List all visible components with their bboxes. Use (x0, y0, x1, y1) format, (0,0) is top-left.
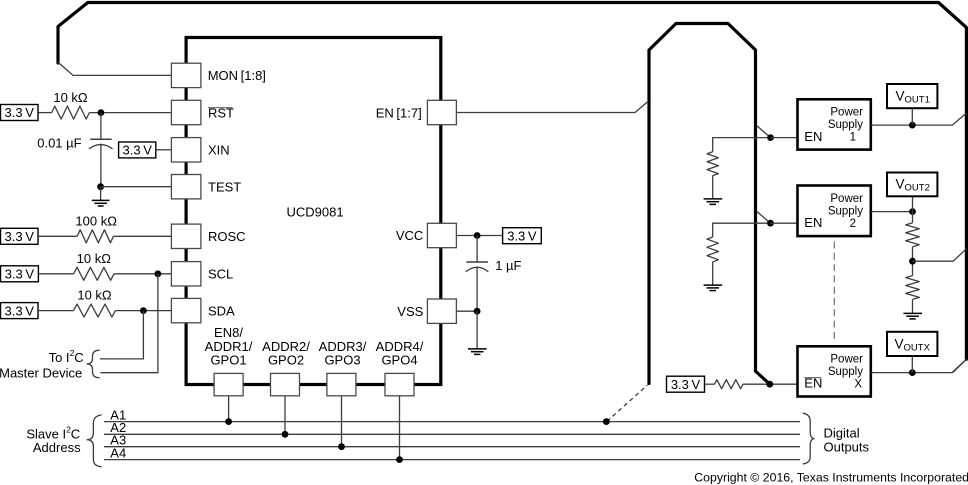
power 3.3V box (SCL) (1, 266, 39, 282)
power 3.3V box (ROSC) (1, 228, 39, 244)
pin EN[1:7] (376, 100, 457, 124)
svg-text:10 kΩ: 10 kΩ (77, 251, 112, 266)
pin ROSC (171, 224, 245, 248)
wire divider mid stem (912, 247, 914, 276)
node digital outputs brace (803, 413, 815, 464)
op-amp PS1 Power Supply 1 (798, 99, 871, 149)
wire EN2 tap from EN bus (757, 211, 771, 223)
node slave address brace (87, 415, 102, 467)
node ENX junction (766, 381, 773, 388)
wire SCL to I2C master (100, 274, 157, 373)
ground (pulldown 1) (704, 176, 723, 205)
wire A1 line (104, 421, 800, 423)
svg-text:To I2C: To I2C (49, 348, 84, 365)
wire XIN (156, 149, 172, 151)
svg-text:GPO3: GPO3 (324, 353, 360, 368)
svg-text:Slave I2C: Slave I2C (26, 424, 80, 441)
svg-text:MON [1:8]: MON [1:8] (208, 68, 266, 83)
node A1 dashed junction (603, 418, 610, 425)
ground (pulldown 2) (704, 262, 723, 291)
node VOUTX junction (909, 369, 916, 376)
svg-text:10 kΩ: 10 kΩ (77, 288, 112, 303)
wire MON bus thin tail to MON pin (58, 62, 171, 75)
svg-text:X: X (854, 379, 862, 391)
wire VSS (456, 310, 477, 312)
ground (divider) (903, 299, 922, 319)
wire ROSC right (113, 235, 171, 237)
power 3.3V box (VCC) (503, 228, 542, 244)
resistor R4 10k (SDA) (74, 304, 116, 317)
resistor R7 (ENX pull-up) (715, 380, 743, 389)
wire VOUTX stub (911, 356, 913, 373)
svg-text:10 kΩ: 10 kΩ (53, 90, 88, 105)
svg-text:Copyright © 2016, Texas Instru: Copyright © 2016, Texas Instruments Inco… (694, 471, 968, 485)
wire PS1 output to MON bus (871, 113, 966, 125)
svg-text:GPO2: GPO2 (268, 353, 304, 368)
wire EN bus inner tall loop (thick) (649, 24, 770, 385)
resistor divider R9 lower (906, 276, 920, 300)
node EN2 junction (767, 220, 774, 227)
wire 3.3V to ENX resistor (705, 383, 715, 385)
pin ADDR2/GPO2 (262, 339, 310, 396)
wire GPO3 to A3 (341, 396, 343, 447)
wire EN[1:7] to EN bus (456, 101, 648, 112)
wire A2 line (104, 433, 800, 435)
node A2 GPO2 junction (282, 431, 289, 438)
pin TEST (171, 175, 241, 199)
node VOUT2 junction (909, 208, 916, 215)
node A3 GPO3 junction (338, 443, 345, 450)
svg-text:Power: Power (830, 107, 863, 119)
svg-text:3.3 V: 3.3 V (5, 303, 35, 318)
power 3.3V box (RST) (1, 105, 39, 121)
node VOUT2 box (887, 173, 937, 197)
pin EN8/ADDR1/GPO1 (205, 325, 253, 396)
pin SCL (171, 262, 233, 286)
pin ADDR3/GPO3 (319, 339, 367, 396)
svg-text:UCD9081: UCD9081 (287, 205, 344, 220)
svg-text:ROSC: ROSC (208, 229, 246, 244)
svg-text:Supply: Supply (828, 205, 863, 217)
wire SCL left (38, 273, 73, 275)
wire SDA to I2C master (100, 311, 143, 359)
wire ENX resistor to PSX (743, 383, 798, 385)
wire GPO4 to A4 (399, 396, 401, 460)
svg-text:EN [1:7]: EN [1:7] (376, 105, 422, 120)
svg-text:GPO1: GPO1 (210, 353, 246, 368)
wire GPO1 to A1 (228, 396, 230, 422)
svg-text:VCC: VCC (396, 228, 423, 243)
svg-text:1 µF: 1 µF (495, 258, 521, 273)
svg-text:Address: Address (33, 440, 81, 455)
node VOUT1 box (887, 84, 937, 108)
wire ROSC left (38, 235, 77, 237)
op-amp PS2 Power Supply 2 (798, 186, 871, 237)
node A4 GPO4 junction (396, 456, 403, 463)
power 3.3V box (SDA) (1, 303, 39, 319)
node RST junction (98, 109, 105, 116)
node VOUT1 junction (909, 122, 916, 129)
svg-text:Power: Power (830, 193, 863, 205)
wire EN1 tap from EN bus (757, 126, 771, 138)
wire GPO2 to A2 (284, 396, 286, 435)
wire dashed PS2 to PSX (833, 242, 835, 342)
pin VSS (397, 299, 456, 323)
wire pulldown 2 to EN2 node (713, 223, 771, 237)
svg-text:2: 2 (850, 218, 856, 230)
wire MON bus outer loop (thick) (58, 3, 966, 360)
svg-text:Power: Power (830, 354, 863, 366)
svg-text:0.01 µF: 0.01 µF (37, 135, 81, 150)
wire SCL right (114, 273, 171, 275)
wire resistor to RST pin (89, 112, 171, 114)
resistor pulldown R5 (EN1) (707, 152, 718, 176)
resistor R3 10k (SCL) (74, 267, 114, 280)
svg-text:Outputs: Outputs (824, 439, 870, 454)
svg-text:Master Device: Master Device (0, 366, 82, 381)
svg-text:TEST: TEST (208, 180, 241, 195)
ground (RST/TEST RC) (92, 187, 110, 206)
resistor R2 100k (ROSC) (77, 230, 113, 243)
svg-text:3.3 V: 3.3 V (507, 228, 537, 243)
node SCL junction (155, 270, 162, 277)
resistor pulldown R6 (EN2) (707, 237, 718, 262)
power 3.3V box (ENX) (667, 376, 705, 392)
wire divider upper stem (912, 212, 914, 223)
capacitor C1 0.01uF (37, 113, 112, 187)
wire VOUT2 stub (912, 196, 914, 212)
svg-text:3.3 V: 3.3 V (5, 105, 35, 120)
resistor divider R8 upper (906, 223, 920, 247)
node divider mid junction (909, 258, 916, 265)
wire A1 dashed to EN bus (EN8) (607, 385, 648, 421)
wire SDA left (38, 310, 74, 312)
pin MON[1:8] (171, 63, 266, 87)
pin SDA (171, 298, 235, 322)
wire EN1 to PS1 (771, 137, 798, 139)
svg-text:Supply: Supply (828, 119, 863, 131)
svg-text:VSS: VSS (397, 304, 423, 319)
pin RST (171, 100, 234, 124)
node VCC junction (474, 232, 481, 239)
wire pulldown 1 to EN1 node (713, 138, 771, 152)
node VOUTX box (887, 332, 937, 356)
wire PSX output to MON bus (871, 359, 966, 372)
svg-text:SDA: SDA (208, 303, 235, 318)
svg-text:EN: EN (804, 215, 822, 230)
svg-text:SCL: SCL (208, 267, 233, 282)
wire SDA right (115, 310, 171, 312)
svg-text:3.3 V: 3.3 V (5, 267, 35, 282)
svg-text:A4: A4 (110, 445, 126, 460)
resistor R1 10k (RST pull-up) (52, 106, 90, 119)
pin ADDR4/GPO4 (376, 339, 424, 396)
ground (VSS bypass) (468, 311, 487, 354)
node A1 GPO1 junction (225, 418, 232, 425)
svg-text:EN: EN (804, 129, 822, 144)
node EN1 junction (767, 134, 774, 141)
svg-text:1: 1 (850, 132, 856, 144)
capacitor C2 1uF (466, 236, 522, 312)
wire A4 line (104, 459, 800, 461)
node I2C master brace (87, 350, 100, 378)
svg-text:XIN: XIN (208, 143, 230, 158)
wire TEST to pin (101, 186, 172, 188)
wire RST RC net: 3.3V to resistor (38, 112, 52, 114)
wire VOUT1 stub (911, 108, 913, 125)
wire divider tap to MON bus (913, 249, 967, 261)
pin XIN (171, 138, 229, 162)
wire EN2 to PS2 (771, 222, 798, 224)
svg-text:GPO4: GPO4 (381, 353, 417, 368)
wire VCC to 3.3V (456, 235, 502, 237)
svg-text:3.3 V: 3.3 V (123, 143, 153, 158)
op-amp U1 UCD9081 IC body (186, 38, 441, 385)
wire PS2 output (871, 211, 913, 213)
svg-text:3.3 V: 3.3 V (5, 229, 35, 244)
node VSS junction (474, 308, 481, 315)
power 3.3V box (XIN) (119, 142, 156, 158)
pin VCC (396, 223, 457, 247)
op-amp PSX Power Supply X (798, 346, 871, 396)
wire MON bus bottom-right thin bevel to VOUTX line (953, 359, 967, 372)
node SDA junction (140, 307, 147, 314)
svg-text:100 kΩ: 100 kΩ (75, 214, 117, 229)
svg-text:3.3 V: 3.3 V (671, 377, 701, 392)
svg-text:Supply: Supply (828, 366, 863, 378)
node TEST junction (97, 183, 104, 190)
wire A3 line (104, 446, 800, 448)
